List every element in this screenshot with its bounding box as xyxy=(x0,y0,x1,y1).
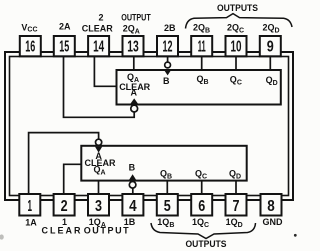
brace under outputs bottom xyxy=(151,223,256,239)
wire pin12 to B input of counter 2 xyxy=(167,56,169,62)
pin 13 box xyxy=(123,36,144,56)
label 1QB xyxy=(157,217,174,229)
label 1A xyxy=(25,217,37,227)
label 2B xyxy=(164,23,176,33)
svg-text:GND: GND xyxy=(263,217,284,227)
label OUTPUTS bottom xyxy=(186,239,227,249)
bubble B input counter 1 xyxy=(129,182,136,189)
label 1QC xyxy=(192,217,209,229)
svg-text:15: 15 xyxy=(59,38,69,55)
label CLEAR counter 2 xyxy=(119,82,150,92)
svg-text:16: 16 xyxy=(25,38,35,55)
svg-text:OUTPUTS: OUTPUTS xyxy=(186,239,227,249)
IC package outline outer xyxy=(5,52,293,200)
counter 1 block body xyxy=(81,146,246,181)
pin 4 box xyxy=(122,194,143,216)
label B counter 2 xyxy=(163,76,170,86)
pin 7 box xyxy=(226,194,247,216)
wire pin5 to QB of counter 1 xyxy=(166,181,168,196)
svg-text:5: 5 xyxy=(164,198,171,215)
bubble A input counter 2 xyxy=(131,105,138,112)
arrowhead B input counter 1 xyxy=(129,174,137,180)
scan speck right of bottom brace xyxy=(294,234,297,237)
svg-text:10: 10 xyxy=(231,38,242,55)
svg-text:OUTPUT: OUTPUT xyxy=(121,13,151,23)
pin 6 box xyxy=(191,194,212,216)
IC package outline inner xyxy=(10,57,289,196)
label VCC xyxy=(21,22,37,33)
label 1 CLEAR xyxy=(42,217,83,236)
scan smudge bottom-left corner xyxy=(0,234,4,239)
svg-text:7: 7 xyxy=(233,198,240,215)
pin 2 box xyxy=(54,194,75,216)
wire pin11 to QB of counter 2 xyxy=(201,56,203,70)
pin 10 box xyxy=(226,36,247,56)
wire pin13 to QA of counter 2 xyxy=(133,56,135,70)
pin 5 box xyxy=(157,194,178,216)
wire pin1 to A input of counter 1 xyxy=(29,133,99,196)
pin 3 box xyxy=(88,194,109,216)
label OUTPUT 2QA xyxy=(121,13,151,36)
svg-text:14: 14 xyxy=(93,38,104,55)
label 2A xyxy=(59,22,71,32)
pin 12 box xyxy=(157,36,178,56)
svg-text:1: 1 xyxy=(28,198,33,215)
pin 15 box xyxy=(54,36,75,56)
label 1QA OUTPUT xyxy=(84,217,131,236)
pin 1 box xyxy=(19,194,40,216)
label 2QD xyxy=(263,23,280,35)
svg-text:6: 6 xyxy=(198,198,205,215)
svg-text:CLEAR: CLEAR xyxy=(42,226,83,236)
label OUTPUTS top xyxy=(217,3,258,13)
svg-text:CLEAR: CLEAR xyxy=(82,24,113,34)
bubble A input counter 1 xyxy=(96,139,102,145)
pin 9 box xyxy=(260,36,281,56)
svg-text:2: 2 xyxy=(61,198,68,215)
brace over outputs top xyxy=(186,14,293,29)
wire pin3 to QA of counter 1 xyxy=(98,181,100,196)
svg-text:11: 11 xyxy=(198,38,206,55)
label QA counter 2 xyxy=(127,72,139,84)
arrowhead B input counter 2 xyxy=(164,70,171,76)
svg-text:1B: 1B xyxy=(124,217,136,227)
svg-text:4: 4 xyxy=(129,198,137,215)
svg-text:8: 8 xyxy=(267,198,275,215)
label 2 CLEAR xyxy=(82,13,113,34)
counter 2 block body xyxy=(117,70,281,105)
label QC counter 1 xyxy=(195,169,207,181)
label QD counter 2 xyxy=(266,75,278,87)
svg-text:OUTPUT: OUTPUT xyxy=(84,226,131,236)
label A counter 2 xyxy=(130,88,137,98)
wire pin9 to QD of counter 2 xyxy=(269,56,271,70)
svg-text:9: 9 xyxy=(267,38,274,55)
label CLEAR counter 1 xyxy=(85,158,116,168)
wire pin10 to QC of counter 2 xyxy=(235,56,237,70)
pin 16 box xyxy=(20,36,41,56)
arrowhead A input counter 1 xyxy=(95,147,102,153)
label 2QB xyxy=(193,23,210,35)
wire pin4 to B input of counter 1 xyxy=(132,188,134,196)
label B counter 1 xyxy=(129,163,136,173)
label A counter 1 xyxy=(95,151,102,161)
pin 8 box xyxy=(261,194,282,216)
svg-text:12: 12 xyxy=(163,38,173,55)
arrowhead A input counter 2 xyxy=(130,98,138,103)
label GND xyxy=(263,217,284,227)
pin 14 box xyxy=(88,36,109,56)
label QD counter 1 xyxy=(229,169,241,181)
label QB counter 2 xyxy=(197,74,209,86)
svg-text:2A: 2A xyxy=(59,22,71,32)
svg-text:13: 13 xyxy=(127,38,139,55)
svg-text:2B: 2B xyxy=(164,23,176,33)
svg-text:3: 3 xyxy=(95,198,102,215)
svg-text:B: B xyxy=(129,163,136,173)
wire pin6 to QC of counter 1 xyxy=(201,181,203,196)
svg-text:1A: 1A xyxy=(25,217,37,227)
bubble B input counter 2 xyxy=(165,62,171,68)
label 1B xyxy=(124,217,136,227)
label 2QC xyxy=(227,23,244,35)
pin 11 box xyxy=(191,36,212,56)
svg-text:2: 2 xyxy=(98,13,103,23)
label QC counter 2 xyxy=(230,75,242,87)
wire pin7 to QD of counter 1 xyxy=(235,181,237,196)
wire pin15 to A input of counter 2 xyxy=(64,56,135,117)
svg-text:B: B xyxy=(163,76,170,86)
wire pin14 to CLEAR of counter 2 xyxy=(94,56,116,86)
svg-text:OUTPUTS: OUTPUTS xyxy=(217,3,258,13)
label QB counter 1 xyxy=(160,169,172,181)
svg-text:A: A xyxy=(130,88,137,98)
wire pin2 to CLEAR of counter 1 xyxy=(64,164,82,196)
label QA counter 1 xyxy=(94,165,106,177)
label 1QD xyxy=(226,217,243,229)
